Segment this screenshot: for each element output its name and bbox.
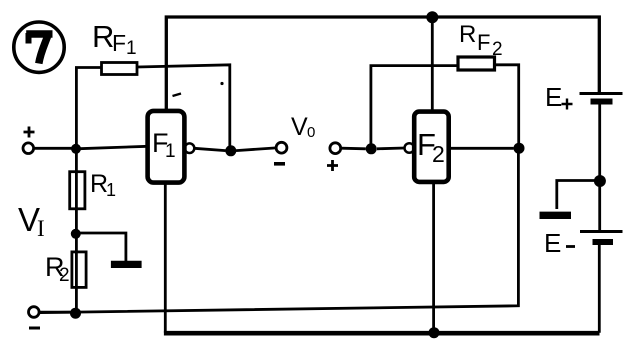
wire E+ to battery mid node	[598, 104, 601, 230]
label minus under left bottom terminal	[29, 327, 40, 330]
wire top rail to F2 top	[431, 17, 434, 112]
svg-text:R: R	[459, 21, 476, 48]
wire bottom rail up to E- battery	[598, 245, 601, 333]
wire output drop and return to lower left terminal	[40, 148, 518, 312]
wire RF1 left lead and left input vertical	[76, 68, 101, 314]
ground bar near R1 R2	[111, 261, 142, 268]
output bubble of F1	[185, 143, 195, 153]
node F2 input	[366, 143, 377, 154]
wire stage2 terminal to input node	[341, 147, 366, 150]
label RF2	[459, 21, 503, 60]
terminal circle stage 2 plus	[330, 143, 341, 154]
wire RF1 right lead down to F1 output node	[137, 65, 230, 151]
wire F2 input node to bubble	[377, 147, 405, 151]
wire bottom left terminal to node	[39, 311, 70, 314]
label E+	[545, 82, 573, 112]
label plus at stage 2 input	[327, 160, 338, 171]
battery E- long plate	[580, 230, 623, 233]
svg-text:F: F	[112, 30, 126, 56]
input bubble of F2	[405, 143, 415, 153]
wire mid node to ground tap	[76, 233, 126, 261]
label V0	[291, 113, 315, 141]
wire F2 bottom down to bottom rail	[432, 182, 435, 333]
svg-text:V: V	[291, 113, 308, 141]
svg-text:0: 0	[307, 124, 315, 141]
wire feedback2 left: node up and to RF2	[371, 66, 458, 149]
stray mark above F1	[173, 94, 182, 97]
label plus at left input	[24, 127, 35, 138]
node bottom left	[70, 308, 81, 319]
wire left terminal to input node	[34, 147, 76, 150]
label RF1	[92, 19, 137, 59]
node between R1 and R2	[71, 229, 81, 239]
wire F2 to output node	[449, 147, 514, 150]
wire F1 output node to minus terminal	[236, 148, 276, 151]
label F1	[152, 128, 176, 162]
wire F1 bottom down to bottom rail	[164, 183, 167, 333]
node bottom rail junction	[429, 327, 440, 338]
battery E+ short plate	[591, 99, 613, 105]
resistor RF2	[458, 57, 495, 70]
amplifier block F1	[148, 111, 185, 183]
terminal circle V0 minus	[276, 142, 287, 153]
resistor RF1	[102, 63, 138, 75]
svg-text:2: 2	[59, 265, 70, 286]
wire top supply rail	[166, 17, 599, 111]
label R1	[90, 170, 116, 200]
label E-	[544, 228, 575, 258]
wire input node to F1	[76, 146, 148, 149]
wire F1 bubble to output node	[194, 148, 225, 150]
speck	[220, 82, 223, 85]
svg-text:1: 1	[126, 38, 137, 59]
svg-text:1: 1	[165, 141, 176, 162]
svg-text:1: 1	[106, 180, 116, 200]
battery E+ long plate	[580, 92, 623, 95]
figure number badge 7	[14, 22, 64, 72]
resistor R1	[70, 172, 85, 209]
label F2	[417, 127, 445, 167]
wire feedback2 right: RF2 to output node	[495, 65, 519, 148]
node F1 output	[225, 145, 236, 156]
node input	[71, 144, 81, 154]
label minus under V0 terminal	[274, 162, 285, 166]
node top rail junction	[426, 11, 438, 23]
battery E- short plate	[593, 239, 614, 245]
label R2	[45, 252, 70, 286]
terminal circle left plus input	[23, 143, 34, 154]
node battery midpoint	[594, 175, 606, 187]
wire battery mid node to ground	[557, 181, 600, 210]
amplifier block F2	[414, 112, 449, 182]
svg-text:2: 2	[432, 141, 445, 167]
svg-text:E: E	[544, 228, 561, 258]
svg-text:I: I	[37, 216, 45, 241]
node F2 output	[514, 143, 525, 154]
ground bar at battery midpoint	[540, 212, 572, 219]
svg-text:F: F	[477, 30, 490, 55]
wire bottom rail	[164, 331, 600, 336]
terminal circle left minus	[29, 307, 40, 318]
label VI	[18, 201, 45, 241]
resistor R2	[72, 252, 86, 288]
svg-text:E: E	[545, 82, 562, 112]
